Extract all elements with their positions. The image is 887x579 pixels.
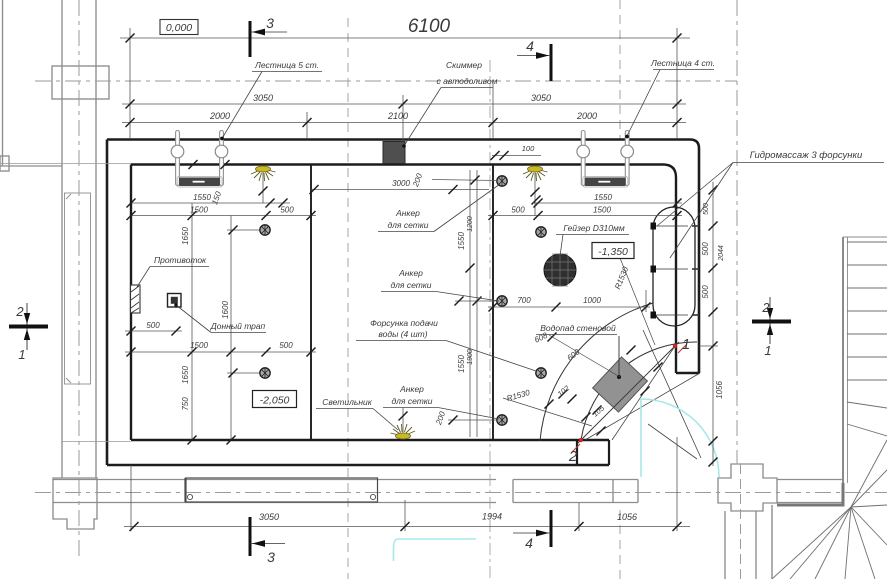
curved stair arc outer (540, 303, 653, 441)
1500/500 dim lower-left (125, 351, 316, 353)
section line 2-1 marker right (752, 297, 791, 358)
wall below right column (724, 511, 726, 579)
vertical axis (right) (736, 0, 738, 464)
svg-text:для сетки: для сетки (387, 220, 428, 230)
svg-text:3050: 3050 (253, 93, 273, 103)
svg-text:1650: 1650 (181, 366, 190, 384)
svg-text:1000: 1000 (583, 296, 601, 305)
svg-text:1900: 1900 (467, 349, 474, 365)
2000/2100/2000 dim line (122, 122, 686, 124)
underwater light 1 (251, 166, 276, 203)
svg-text:500: 500 (280, 206, 294, 215)
vertical chain x=192 (191, 203, 193, 440)
svg-text:500: 500 (146, 321, 160, 330)
pool divider wall 1 (310, 165, 312, 441)
overall 6100 dim line (120, 37, 690, 39)
anchor pointer lines left (227, 229, 259, 231)
bottom wall (mid run) (513, 479, 638, 481)
svg-text:2100: 2100 (387, 111, 408, 121)
svg-text:500: 500 (511, 206, 525, 215)
label anchor 3 (383, 384, 499, 419)
svg-text:Гидромассаж 3 форсунки: Гидромассаж 3 форсунки (750, 150, 863, 161)
svg-text:1550: 1550 (457, 232, 466, 250)
extension lines bottom (130, 465, 132, 531)
counterflow unit (131, 285, 141, 313)
svg-text:750: 750 (181, 397, 190, 411)
pool divider wall 2 (492, 165, 494, 441)
svg-text:3050: 3050 (531, 93, 551, 103)
label hydromassage (657, 150, 884, 258)
bench2 divider (612, 480, 614, 503)
svg-text:Водопад стеновой: Водопад стеновой (540, 323, 616, 333)
stair corner wall (777, 483, 843, 505)
hydromassage oval niche (653, 207, 695, 326)
svg-text:Анкер: Анкер (398, 268, 423, 278)
water nozzle C2 (536, 368, 546, 378)
stair left lower wall (771, 505, 773, 579)
svg-text:500: 500 (279, 341, 293, 350)
700/1000 dim (488, 306, 650, 308)
3050/3050 dim line (122, 103, 686, 105)
hydromassage nozzle 3 (651, 312, 700, 319)
svg-text:500: 500 (703, 203, 710, 215)
drain 500 dim (125, 330, 182, 332)
svg-text:Лестница 5 ст.: Лестница 5 ст. (254, 60, 319, 70)
right chain x=713 (712, 182, 714, 466)
waterfall leader stem (618, 336, 620, 377)
level -2,050 box (253, 391, 297, 408)
svg-text:для сетки: для сетки (391, 396, 432, 406)
svg-text:1550: 1550 (457, 355, 466, 373)
svg-text:1500: 1500 (593, 206, 611, 215)
pool outer wall (107, 140, 699, 466)
pool inner wall (131, 165, 676, 441)
stair wall (842, 237, 844, 490)
svg-text:-1,350: -1,350 (598, 246, 628, 258)
grid line x=620 (619, 0, 621, 139)
net anchor A2 (260, 368, 270, 378)
section mark 4 top (517, 38, 551, 81)
ladder dims right (533, 202, 682, 204)
radius line R1530 upper (620, 258, 655, 345)
svg-text:2: 2 (15, 304, 24, 319)
svg-text:0,000: 0,000 (166, 22, 192, 34)
section mark 3 bottom (250, 517, 285, 565)
ladder dims left (131, 202, 290, 204)
wall panel on left wall (65, 193, 91, 384)
svg-text:1550: 1550 (594, 193, 612, 202)
waterfall block (593, 357, 648, 412)
100 dim (492, 155, 541, 157)
svg-text:1: 1 (764, 343, 771, 358)
net anchor B3 (497, 415, 507, 425)
svg-text:воды (4 шт): воды (4 шт) (378, 329, 427, 339)
hydromassage nozzle 1 (651, 223, 700, 230)
bottom wall right stub (777, 479, 843, 481)
bottom-right cross column (718, 464, 777, 511)
dimension texts (146, 16, 725, 522)
section line 2-1 marker left (9, 303, 48, 362)
svg-text:1200: 1200 (467, 216, 474, 232)
label counterflow (137, 255, 209, 287)
svg-text:2044: 2044 (718, 245, 725, 262)
svg-text:2: 2 (761, 300, 770, 315)
svg-text:1500: 1500 (190, 341, 208, 350)
svg-text:700: 700 (517, 296, 531, 305)
svg-text:500: 500 (701, 242, 710, 256)
stair treads (847, 242, 887, 436)
label anchor 2 (381, 268, 499, 301)
level -1,350 box (592, 243, 634, 259)
curved stair arc inner (581, 342, 697, 440)
svg-text:Лестница 4 ст.: Лестница 4 ст. (650, 58, 715, 68)
radius line R1530 lower (503, 398, 592, 426)
svg-text:2: 2 (568, 448, 578, 465)
svg-text:Донный трап: Донный трап (210, 321, 266, 331)
svg-text:3: 3 (267, 549, 275, 565)
svg-text:1056: 1056 (715, 381, 724, 399)
label floor drain (174, 303, 266, 332)
section mark 3 top (250, 15, 287, 57)
net anchor C1 (536, 227, 546, 237)
wall stub right at stairs (676, 372, 699, 374)
top-left room wall (2, 0, 4, 166)
top-left column (52, 66, 109, 99)
skimmer body (383, 142, 405, 164)
label ladder 5 (220, 60, 322, 140)
svg-text:500: 500 (701, 285, 710, 299)
stair direction triangle lines (585, 330, 701, 459)
svg-text:2000: 2000 (576, 111, 597, 121)
svg-text:1500: 1500 (190, 206, 208, 215)
bottom-right step box (577, 440, 609, 465)
net anchor A1 (260, 225, 270, 235)
ticks on stair arcs (545, 400, 554, 409)
small box at left edge (0, 156, 9, 171)
thin extension of inner lines (0, 164, 131, 442)
vertical chains x=470/477 (469, 170, 471, 437)
svg-text:1: 1 (682, 336, 690, 353)
hydromassage nozzle 2 (651, 266, 700, 273)
section mark 4 bottom (513, 510, 551, 551)
ladder 5 steps (left) (171, 131, 228, 188)
svg-text:3050: 3050 (259, 512, 279, 522)
svg-text:100: 100 (522, 144, 535, 153)
bench along bottom wall (186, 478, 378, 502)
svg-text:4: 4 (526, 38, 534, 54)
svg-text:Противоток: Противоток (154, 255, 207, 265)
svg-text:1994: 1994 (482, 512, 502, 522)
svg-text:Форсунка подачи: Форсунка подачи (370, 318, 438, 328)
vertical axis 1 (left wall) (78, 0, 80, 560)
svg-text:1550: 1550 (193, 193, 211, 202)
horizontal axis A (35, 80, 737, 82)
dimension ticks (126, 34, 718, 532)
anchor pointer lines middle (432, 180, 498, 181)
svg-text:3000: 3000 (392, 179, 410, 188)
section chord line 1-2 (577, 342, 679, 444)
floor drain (168, 294, 182, 308)
grid line x=348 (347, 18, 349, 579)
svg-text:6100: 6100 (408, 16, 451, 37)
label nozzles (356, 318, 536, 371)
svg-text:для сетки: для сетки (390, 280, 431, 290)
svg-text:2000: 2000 (209, 111, 230, 121)
label light (316, 397, 398, 430)
svg-text:Светильник: Светильник (322, 397, 372, 407)
svg-text:Анкер: Анкер (399, 384, 424, 394)
section marks 1-2 red (568, 336, 690, 465)
underwater light 3 (bottom) (391, 408, 416, 439)
bottom dim line (124, 526, 690, 528)
svg-text:3: 3 (266, 15, 274, 31)
extension lines top (129, 28, 131, 139)
grid line x=490 (489, 60, 491, 579)
diagonal dim 600 line (549, 335, 620, 377)
datum 0,000 box (160, 20, 198, 35)
label anchor 1 (378, 184, 500, 232)
svg-text:1: 1 (18, 347, 25, 362)
bottom wall (left run) (53, 479, 496, 481)
label ladder 4 (625, 58, 715, 138)
geyser (544, 254, 576, 286)
vertical chain x=231 (230, 216, 232, 441)
ladder 4 steps (right) (577, 131, 634, 188)
label waterfall (536, 323, 617, 335)
svg-text:Анкер: Анкер (395, 208, 420, 218)
label skimmer (402, 60, 497, 148)
stair winder rays (772, 440, 887, 579)
svg-text:с автодоливом: с автодоливом (437, 76, 498, 86)
vertical axis below right column (740, 464, 742, 579)
3000 dim (311, 189, 489, 191)
svg-text:1650: 1650 (181, 227, 190, 245)
svg-text:1056: 1056 (617, 512, 637, 522)
net anchor B1 (497, 176, 507, 186)
underwater light 2 (523, 166, 548, 216)
door swing (cyan) (394, 399, 720, 561)
horizontal axis B (bottom wall) (35, 492, 887, 494)
svg-text:-2,050: -2,050 (260, 395, 290, 407)
left wall (61, 0, 63, 478)
net anchor B2 (497, 296, 507, 306)
svg-text:Гейзер D310мм: Гейзер D310мм (563, 223, 625, 233)
svg-text:Скиммер: Скиммер (446, 60, 482, 70)
svg-text:1600: 1600 (221, 301, 230, 319)
label geyser (556, 223, 629, 256)
svg-text:4: 4 (525, 535, 533, 551)
bottom-left cross column (53, 478, 97, 529)
